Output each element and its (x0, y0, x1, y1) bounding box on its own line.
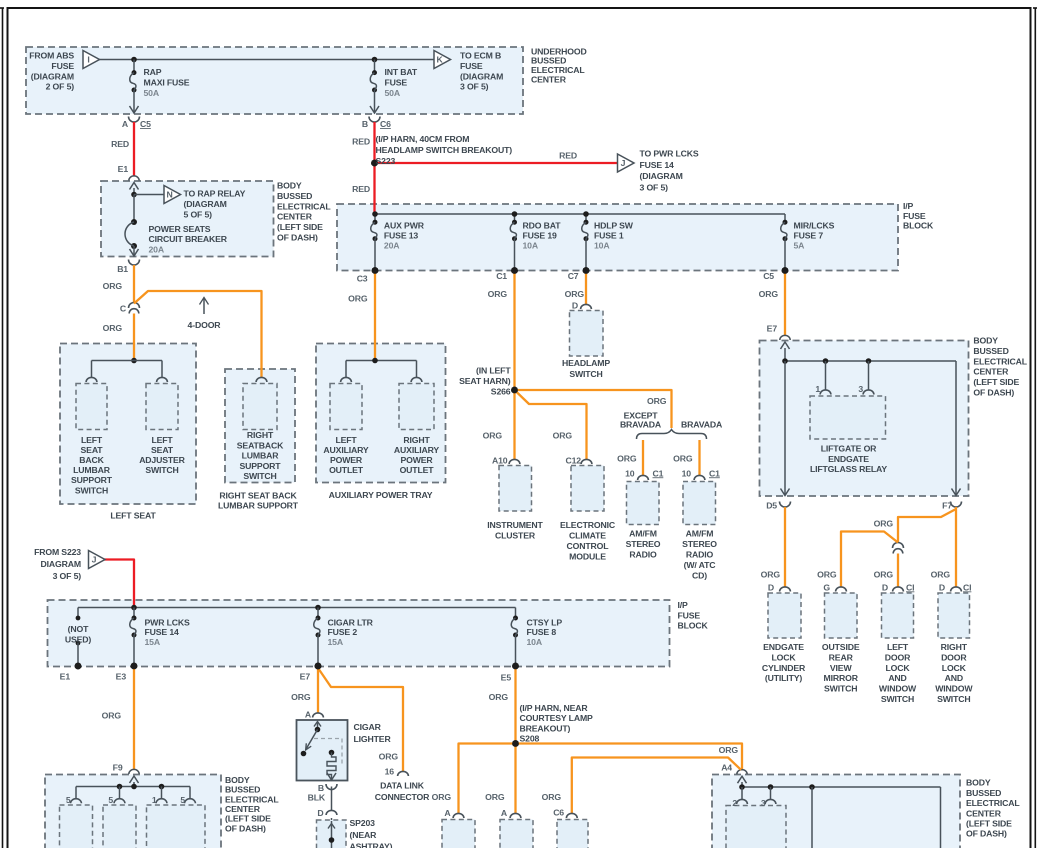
svg-text:ORG: ORG (673, 454, 693, 464)
svg-text:5 OF 5): 5 OF 5) (184, 210, 213, 220)
svg-text:(IN LEFT: (IN LEFT (476, 366, 511, 376)
svg-text:D: D (572, 301, 578, 311)
svg-text:(NOT: (NOT (68, 624, 89, 634)
svg-text:D: D (768, 582, 774, 592)
svg-text:BRAVADA: BRAVADA (681, 420, 723, 430)
svg-text:1: 1 (815, 384, 820, 394)
svg-text:LIGHTER: LIGHTER (354, 734, 392, 744)
svg-text:SWITCH: SWITCH (881, 694, 914, 704)
svg-text:MAXI FUSE: MAXI FUSE (144, 77, 190, 87)
svg-text:CENTER: CENTER (225, 804, 261, 814)
svg-text:FROM S223: FROM S223 (34, 547, 81, 557)
svg-text:ORG: ORG (817, 570, 837, 580)
svg-text:AUXILIARY: AUXILIARY (323, 445, 369, 455)
svg-text:FUSE 14: FUSE 14 (640, 160, 675, 170)
svg-text:ELECTRONIC: ELECTRONIC (560, 520, 616, 530)
svg-text:16: 16 (385, 767, 395, 777)
svg-text:CLIMATE: CLIMATE (569, 531, 606, 541)
svg-text:(DIAGRAM: (DIAGRAM (184, 199, 227, 209)
svg-text:(LEFT SIDE: (LEFT SIDE (225, 814, 271, 824)
svg-text:REAR: REAR (829, 652, 854, 662)
svg-text:K: K (436, 55, 443, 65)
svg-text:AM/FM: AM/FM (629, 529, 657, 539)
svg-text:3 OF 5): 3 OF 5) (640, 182, 669, 192)
svg-text:A: A (444, 808, 451, 818)
svg-text:ORG: ORG (348, 294, 368, 304)
svg-text:ORG: ORG (102, 711, 122, 721)
svg-text:SWITCH: SWITCH (824, 684, 857, 694)
svg-text:E7: E7 (767, 324, 778, 334)
svg-text:RAP: RAP (144, 67, 162, 77)
svg-text:10: 10 (682, 468, 692, 478)
svg-text:E5: E5 (501, 673, 512, 683)
svg-text:D: D (317, 808, 323, 818)
svg-text:STEREO: STEREO (626, 539, 661, 549)
svg-text:(I/P HARN, NEAR: (I/P HARN, NEAR (520, 703, 589, 713)
svg-text:15A: 15A (145, 637, 161, 647)
svg-text:FROM ABS: FROM ABS (29, 51, 74, 61)
svg-text:(W/ ATC: (W/ ATC (684, 560, 717, 570)
svg-text:RADIO: RADIO (686, 550, 714, 560)
svg-text:HDLP SW: HDLP SW (594, 221, 634, 231)
svg-text:(LEFT SIDE: (LEFT SIDE (277, 222, 323, 232)
svg-text:CONTROL: CONTROL (567, 541, 610, 551)
svg-text:(LEFT SIDE: (LEFT SIDE (973, 377, 1019, 387)
svg-text:SUPPORT: SUPPORT (240, 461, 282, 471)
svg-text:ORG: ORG (103, 281, 123, 291)
svg-text:OF DASH): OF DASH) (277, 233, 318, 243)
svg-text:CENTER: CENTER (277, 212, 313, 222)
svg-text:OUTLET: OUTLET (329, 465, 364, 475)
svg-text:AUX PWR: AUX PWR (384, 221, 425, 231)
svg-text:5: 5 (108, 795, 113, 805)
svg-text:RED: RED (352, 137, 370, 147)
svg-text:SWITCH: SWITCH (569, 369, 602, 379)
svg-text:LUMBAR: LUMBAR (242, 451, 280, 461)
svg-text:ELECTRICAL: ELECTRICAL (973, 356, 1027, 366)
svg-text:ORG: ORG (761, 570, 781, 580)
svg-text:20A: 20A (384, 241, 400, 251)
svg-text:C3: C3 (357, 274, 368, 284)
svg-text:WINDOW: WINDOW (935, 684, 973, 694)
svg-text:E1: E1 (60, 672, 71, 682)
svg-text:OUTLET: OUTLET (400, 465, 435, 475)
svg-text:N: N (166, 190, 172, 200)
svg-text:DATA LINK: DATA LINK (380, 781, 425, 791)
svg-text:CD): CD) (692, 570, 707, 580)
svg-text:B: B (362, 119, 368, 129)
svg-text:20A: 20A (149, 244, 165, 254)
svg-text:BLK: BLK (308, 793, 326, 803)
svg-text:CENTER: CENTER (531, 75, 567, 85)
svg-text:F7: F7 (942, 501, 952, 511)
svg-text:BODY: BODY (966, 778, 991, 788)
svg-text:10A: 10A (527, 637, 543, 647)
svg-text:DOOR: DOOR (885, 652, 911, 662)
svg-text:RIGHT: RIGHT (403, 435, 430, 445)
svg-text:ELECTRICAL: ELECTRICAL (966, 798, 1020, 808)
svg-text:ORG: ORG (483, 431, 503, 441)
svg-text:FUSE: FUSE (678, 610, 701, 620)
svg-text:WINDOW: WINDOW (879, 684, 917, 694)
svg-text:ORG: ORG (489, 692, 509, 702)
svg-text:ORG: ORG (874, 519, 894, 529)
svg-text:J: J (621, 158, 626, 168)
svg-text:BREAKOUT): BREAKOUT) (520, 723, 571, 733)
svg-text:SWITCH: SWITCH (145, 465, 178, 475)
svg-text:AUXILIARY: AUXILIARY (394, 445, 440, 455)
svg-text:(NEAR: (NEAR (350, 830, 378, 840)
svg-text:ADJUSTER: ADJUSTER (139, 455, 185, 465)
svg-text:SUPPORT: SUPPORT (71, 475, 113, 485)
svg-text:FUSE: FUSE (51, 61, 74, 71)
svg-text:AM/FM: AM/FM (686, 529, 714, 539)
svg-text:HEADLAMP: HEADLAMP (562, 358, 610, 368)
svg-text:AUXILIARY POWER TRAY: AUXILIARY POWER TRAY (329, 490, 433, 500)
svg-text:RIGHT SEAT BACK: RIGHT SEAT BACK (219, 490, 297, 500)
svg-text:CONNECTOR: CONNECTOR (375, 792, 430, 802)
svg-text:FUSE 7: FUSE 7 (794, 231, 824, 241)
svg-text:(LEFT SIDE: (LEFT SIDE (966, 819, 1012, 829)
svg-text:CIGAR LTR: CIGAR LTR (328, 618, 374, 628)
svg-text:D: D (882, 582, 888, 592)
svg-text:I/P: I/P (678, 600, 689, 610)
svg-text:C1: C1 (653, 468, 664, 478)
svg-text:OF DASH): OF DASH) (225, 823, 266, 833)
svg-text:CI: CI (906, 582, 914, 592)
svg-text:POWER SEATS: POWER SEATS (149, 224, 211, 234)
svg-text:F9: F9 (113, 763, 123, 773)
svg-text:2: 2 (732, 798, 737, 808)
svg-text:(DIAGRAM: (DIAGRAM (31, 71, 74, 81)
svg-text:A4: A4 (721, 762, 732, 772)
svg-text:E3: E3 (116, 672, 127, 682)
svg-text:D: D (939, 582, 945, 592)
svg-text:S223: S223 (376, 156, 396, 166)
svg-text:ORG: ORG (874, 570, 894, 580)
svg-text:A10: A10 (492, 456, 508, 466)
svg-text:S208: S208 (520, 734, 540, 744)
svg-text:A: A (305, 710, 312, 720)
svg-text:D5: D5 (766, 501, 777, 511)
svg-text:ORG: ORG (379, 752, 399, 762)
svg-text:C: C (120, 304, 127, 314)
svg-text:FUSE: FUSE (460, 61, 483, 71)
svg-text:ENDGATE: ENDGATE (828, 454, 869, 464)
svg-text:LIFTGATE OR: LIFTGATE OR (821, 444, 877, 454)
svg-text:TO ECM B: TO ECM B (460, 51, 501, 61)
svg-text:BODY: BODY (225, 775, 250, 785)
svg-text:C7: C7 (568, 271, 579, 281)
svg-text:ORG: ORG (647, 396, 667, 406)
svg-text:TO PWR LCKS: TO PWR LCKS (640, 149, 699, 159)
svg-text:BUSSED: BUSSED (225, 785, 260, 795)
svg-text:ORG: ORG (291, 692, 311, 702)
svg-text:SEATBACK: SEATBACK (237, 440, 284, 450)
svg-text:LOCK: LOCK (942, 663, 967, 673)
svg-text:INT BAT: INT BAT (385, 67, 418, 77)
svg-text:I/P: I/P (903, 201, 914, 211)
svg-text:POWER: POWER (330, 455, 363, 465)
svg-text:ORG: ORG (553, 431, 573, 441)
svg-text:SEAT HARN): SEAT HARN) (459, 376, 511, 386)
svg-text:(DIAGRAM: (DIAGRAM (460, 71, 503, 81)
svg-text:SP203: SP203 (350, 818, 376, 828)
svg-text:ORG: ORG (719, 745, 739, 755)
svg-text:POWER: POWER (400, 455, 433, 465)
svg-text:FUSE 13: FUSE 13 (384, 231, 419, 241)
svg-text:ORG: ORG (565, 289, 585, 299)
svg-text:BUSSED: BUSSED (277, 191, 312, 201)
svg-text:VIEW: VIEW (830, 663, 853, 673)
svg-text:3: 3 (761, 798, 766, 808)
svg-text:SWITCH: SWITCH (937, 694, 970, 704)
svg-text:CLUSTER: CLUSTER (495, 531, 536, 541)
svg-text:S266: S266 (491, 386, 511, 396)
svg-text:FUSE 1: FUSE 1 (594, 231, 624, 241)
svg-text:LUMBAR: LUMBAR (73, 465, 111, 475)
svg-text:INSTRUMENT: INSTRUMENT (487, 520, 543, 530)
svg-text:3 OF 5): 3 OF 5) (460, 82, 489, 92)
svg-text:ORG: ORG (617, 454, 637, 464)
svg-text:MIR/LCKS: MIR/LCKS (794, 221, 835, 231)
svg-text:FUSE 8: FUSE 8 (527, 627, 557, 637)
svg-text:5: 5 (180, 795, 185, 805)
svg-text:LOCK: LOCK (771, 652, 796, 662)
svg-text:RED: RED (111, 139, 129, 149)
svg-text:RED: RED (559, 151, 577, 161)
svg-text:C6: C6 (553, 808, 564, 818)
svg-text:E1: E1 (118, 164, 129, 174)
svg-text:3: 3 (858, 384, 863, 394)
svg-text:CYLINDER: CYLINDER (762, 663, 806, 673)
svg-text:A: A (122, 119, 129, 129)
svg-text:DIAGRAM: DIAGRAM (41, 559, 81, 569)
svg-text:10: 10 (625, 468, 635, 478)
svg-text:CIGAR: CIGAR (354, 722, 382, 732)
svg-text:4-DOOR: 4-DOOR (188, 320, 222, 330)
svg-text:BODY: BODY (973, 336, 998, 346)
svg-text:(UTILITY): (UTILITY) (765, 673, 803, 683)
svg-text:SEAT: SEAT (151, 445, 174, 455)
svg-text:50A: 50A (385, 88, 401, 98)
svg-text:C5: C5 (140, 119, 151, 129)
svg-text:SWITCH: SWITCH (75, 485, 108, 495)
svg-text:FUSE: FUSE (385, 77, 408, 87)
svg-text:BRAVADA: BRAVADA (620, 420, 662, 430)
svg-text:LEFT: LEFT (81, 435, 103, 445)
svg-text:E7: E7 (300, 672, 311, 682)
svg-text:BUSSED: BUSSED (973, 346, 1008, 356)
svg-text:LEFT: LEFT (151, 435, 173, 445)
svg-text:LEFT: LEFT (335, 435, 357, 445)
svg-text:OUTSIDE: OUTSIDE (822, 642, 860, 652)
svg-text:C1: C1 (709, 468, 720, 478)
svg-text:10A: 10A (523, 241, 539, 251)
svg-text:CIRCUIT BREAKER: CIRCUIT BREAKER (149, 234, 228, 244)
svg-text:BACK: BACK (79, 455, 104, 465)
svg-text:ORG: ORG (103, 323, 123, 333)
svg-text:DOOR: DOOR (941, 652, 967, 662)
svg-text:HEADLAMP SWITCH BREAKOUT): HEADLAMP SWITCH BREAKOUT) (376, 145, 513, 155)
svg-text:FUSE 19: FUSE 19 (523, 231, 558, 241)
svg-text:CTSY LP: CTSY LP (527, 618, 563, 628)
svg-text:FUSE 2: FUSE 2 (328, 627, 358, 637)
svg-text:G: G (823, 582, 830, 592)
svg-text:BUSSED: BUSSED (966, 788, 1001, 798)
svg-text:FUSE: FUSE (903, 211, 926, 221)
svg-text:ORG: ORG (485, 792, 505, 802)
svg-text:ORG: ORG (931, 570, 951, 580)
svg-text:J: J (92, 555, 97, 565)
svg-text:5A: 5A (794, 241, 806, 251)
svg-text:C1: C1 (496, 271, 507, 281)
svg-text:50A: 50A (144, 88, 160, 98)
svg-text:RIGHT: RIGHT (247, 430, 274, 440)
svg-text:ENDGATE: ENDGATE (763, 642, 804, 652)
svg-text:STEREO: STEREO (682, 539, 717, 549)
svg-text:CI: CI (963, 582, 971, 592)
svg-text:BODY: BODY (277, 181, 302, 191)
svg-text:AND: AND (945, 673, 963, 683)
svg-text:PWR LCKS: PWR LCKS (145, 618, 190, 628)
svg-text:ELECTRICAL: ELECTRICAL (225, 794, 279, 804)
svg-text:LEFT SEAT: LEFT SEAT (110, 511, 156, 521)
svg-text:ELECTRICAL: ELECTRICAL (277, 201, 331, 211)
svg-text:FUSE 14: FUSE 14 (145, 627, 180, 637)
svg-text:(DIAGRAM: (DIAGRAM (640, 171, 683, 181)
svg-text:SWITCH: SWITCH (243, 471, 276, 481)
svg-text:2 OF 5): 2 OF 5) (46, 82, 75, 92)
svg-text:MIRROR: MIRROR (824, 673, 859, 683)
svg-text:RADIO: RADIO (629, 550, 657, 560)
svg-text:BLOCK: BLOCK (678, 620, 709, 630)
svg-text:LUMBAR SUPPORT: LUMBAR SUPPORT (218, 501, 299, 511)
svg-text:C6: C6 (380, 119, 391, 129)
svg-text:ORG: ORG (759, 289, 779, 299)
svg-text:RED: RED (352, 184, 370, 194)
svg-text:OF DASH): OF DASH) (966, 829, 1007, 839)
svg-text:MODULE: MODULE (569, 551, 606, 561)
svg-text:A: A (501, 808, 508, 818)
svg-text:USED): USED) (65, 635, 92, 645)
svg-text:10A: 10A (594, 241, 610, 251)
svg-text:AND: AND (888, 673, 906, 683)
svg-text:C5: C5 (763, 271, 774, 281)
svg-text:C12: C12 (566, 456, 582, 466)
svg-text:COURTESY LAMP: COURTESY LAMP (520, 713, 594, 723)
svg-text:ORG: ORG (542, 792, 562, 802)
svg-text:RIGHT: RIGHT (941, 642, 968, 652)
svg-text:5: 5 (66, 795, 71, 805)
svg-text:ASHTRAY): ASHTRAY) (350, 842, 393, 848)
svg-text:SEAT: SEAT (81, 445, 104, 455)
svg-text:OF DASH): OF DASH) (973, 388, 1014, 398)
svg-text:LEFT: LEFT (887, 642, 909, 652)
svg-text:BLOCK: BLOCK (903, 221, 934, 231)
svg-text:I: I (87, 55, 89, 65)
svg-text:LOCK: LOCK (885, 663, 910, 673)
svg-text:3 OF 5): 3 OF 5) (53, 571, 82, 581)
svg-text:RDO BAT: RDO BAT (523, 221, 562, 231)
svg-text:TO RAP RELAY: TO RAP RELAY (184, 189, 246, 199)
svg-text:LIFTGLASS RELAY: LIFTGLASS RELAY (810, 464, 887, 474)
svg-text:CENTER: CENTER (966, 808, 1002, 818)
svg-text:B1: B1 (117, 264, 128, 274)
svg-text:1: 1 (152, 795, 157, 805)
svg-text:ORG: ORG (432, 792, 452, 802)
svg-text:15A: 15A (328, 637, 344, 647)
svg-text:ORG: ORG (488, 289, 508, 299)
svg-text:CENTER: CENTER (973, 367, 1009, 377)
svg-text:(I/P HARN, 40CM FROM: (I/P HARN, 40CM FROM (376, 134, 470, 144)
